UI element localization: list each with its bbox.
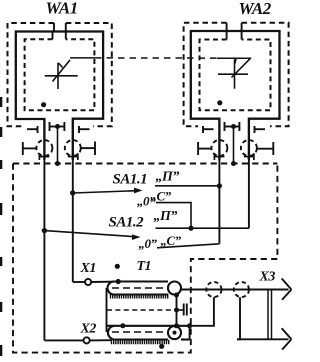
X3 coax circle 2 bbox=[234, 282, 249, 297]
T1 primary end cap bbox=[168, 282, 181, 295]
antenna WA2 screen inner wall bbox=[200, 40, 271, 111]
node WA2 screen tie bbox=[231, 124, 236, 129]
T1 secondary polarity dot bbox=[159, 344, 164, 349]
WA2 winding start dot bbox=[217, 100, 222, 105]
antenna WA1 loop bbox=[16, 32, 103, 161]
WA2 trimmer cross bbox=[218, 58, 250, 88]
switch SA1.2 contact P wire bbox=[156, 227, 249, 229]
switch SA1.1 contact P wire bbox=[155, 185, 219, 187]
T1 windings left link bbox=[106, 288, 108, 332]
svg-text:WA2: WA2 bbox=[239, 0, 272, 18]
output line bottom bbox=[237, 338, 289, 340]
svg-text:SA1.2: SA1.2 bbox=[109, 215, 145, 231]
wire coax2 down bbox=[237, 297, 240, 339]
wire WA1 left down bbox=[43, 119, 45, 340]
wire primary end down bbox=[176, 295, 178, 326]
feedthrough insulator WA1 right bbox=[65, 140, 81, 156]
T1 primary polarity dot bbox=[115, 264, 120, 269]
T1 secondary end cap bbox=[168, 326, 181, 339]
wire WA1 screen tie link bbox=[57, 127, 59, 164]
wire X1 feed bbox=[73, 281, 85, 283]
feedthrough insulator WA2 right bbox=[241, 140, 257, 156]
switch SA1.2 pole node bbox=[42, 228, 47, 233]
arrow output top bbox=[282, 279, 292, 300]
node X1 to primary bbox=[116, 279, 121, 284]
antenna WA2 screen slot ticks bbox=[227, 23, 242, 40]
wire WA2 right down bbox=[248, 119, 250, 229]
feedthrough WA1 left lower bar bbox=[39, 153, 49, 160]
wire secondary right link bbox=[189, 326, 191, 340]
node secondary output bbox=[187, 323, 192, 328]
node primary end bbox=[174, 293, 179, 298]
antenna WA1 screen outer wall bbox=[8, 23, 112, 126]
feedthrough WA1 right lower bar bbox=[68, 153, 78, 160]
node secondary top right bus bbox=[174, 323, 179, 328]
node WA2 screen to chassis bbox=[231, 161, 236, 166]
antenna WA2 screen outer wall bbox=[184, 23, 289, 127]
svg-text:„П”: „П” bbox=[154, 209, 178, 224]
node WA1 screen tie bbox=[55, 124, 60, 129]
feeder twin bars bbox=[268, 290, 272, 340]
T1 secondary core dash bbox=[112, 331, 167, 333]
switch SA1.2 arm bbox=[44, 231, 136, 237]
WA2 screen bottom terminals bbox=[203, 122, 265, 133]
X3 coax circle 1 bbox=[206, 282, 221, 297]
T1 interwinding screen bbox=[107, 309, 177, 311]
node WA1 screen to chassis bbox=[55, 161, 60, 166]
T1 primary winding bbox=[108, 282, 169, 295]
T1 primary core dash bbox=[112, 287, 167, 289]
wire X2 to T1 bbox=[90, 339, 111, 341]
arrow output bottom bbox=[282, 328, 292, 349]
T1 secondary winding bbox=[108, 326, 190, 340]
node SA1.1 P to WA2 left bbox=[217, 183, 222, 188]
svg-text:SA1.1: SA1.1 bbox=[113, 172, 148, 188]
feedthrough WA2 right lower bar bbox=[244, 153, 254, 160]
wire WA2 screen tie link bbox=[233, 127, 235, 164]
T1 secondary turns hatch bbox=[112, 340, 169, 345]
feedthrough WA1 right terminal bbox=[82, 142, 96, 156]
T1 secondary end cap dot bbox=[173, 331, 177, 335]
svg-text:X1: X1 bbox=[80, 261, 96, 276]
connector X1 bbox=[85, 279, 91, 285]
svg-text:„С”: „С” bbox=[151, 189, 172, 204]
node screen tie bbox=[174, 308, 179, 313]
wire WA2 left down bbox=[218, 119, 220, 244]
antenna WA2 loop bbox=[191, 31, 280, 160]
feedthrough insulator WA2 left bbox=[211, 140, 227, 156]
WA1 screen bottom terminals bbox=[27, 122, 90, 133]
receiver screen enclosure bbox=[13, 164, 277, 353]
svg-text:„П”: „П” bbox=[156, 170, 180, 185]
switch SA1.1 pole node bbox=[70, 190, 75, 195]
switch SA1.1 arm bbox=[73, 191, 139, 193]
connector X2 bbox=[84, 337, 90, 343]
mechanical coupling link WA1-WA2 bbox=[70, 57, 251, 59]
feedthrough WA2 left lower bar bbox=[214, 153, 224, 160]
feedthrough WA2 right terminal bbox=[257, 142, 273, 155]
antenna WA1 screen inner wall bbox=[25, 39, 95, 110]
wire screen to capacitor bbox=[177, 309, 184, 311]
svg-text:„0”: „0” bbox=[139, 236, 158, 251]
switch SA1.2 arm arrowhead bbox=[132, 234, 141, 240]
svg-text:WA1: WA1 bbox=[46, 0, 78, 18]
feedthrough insulator WA1 left bbox=[36, 140, 52, 156]
wire X1 to T1 bbox=[91, 281, 118, 283]
T1 primary turns hatch bbox=[111, 294, 168, 299]
capacitor to screen plates bbox=[184, 304, 187, 316]
switch SA1.2 contact C wire bbox=[157, 244, 219, 248]
node secondary top left bbox=[120, 323, 125, 328]
svg-text:Т1: Т1 bbox=[137, 259, 152, 274]
wire coax1 to secondary bbox=[190, 297, 214, 326]
output line to X3 bbox=[181, 289, 289, 291]
feedthrough WA1 left terminal bbox=[23, 142, 36, 155]
antenna WA1 screen slot ticks bbox=[53, 23, 66, 39]
svg-text:X2: X2 bbox=[80, 322, 97, 337]
svg-text:X3: X3 bbox=[259, 270, 276, 285]
switch SA1.1 contact C wire bbox=[156, 203, 191, 229]
node SA1.2 P junction bbox=[188, 226, 193, 231]
switch SA1.1 arm arrowhead bbox=[134, 188, 143, 194]
wire WA1 right down bbox=[72, 119, 74, 282]
wire X2 feed bbox=[44, 339, 83, 341]
WA1 trimmer cross bbox=[45, 60, 78, 89]
scan edge marks bbox=[0, 97, 2, 356]
WA1 winding start dot bbox=[41, 102, 46, 107]
feedthrough WA2 left terminal bbox=[198, 142, 211, 155]
